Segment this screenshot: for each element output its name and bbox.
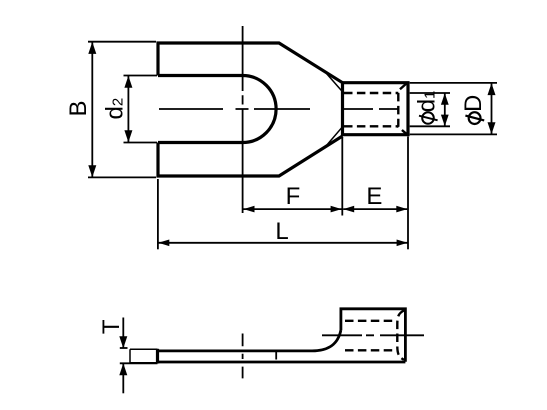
side view: vertical centerline [242, 334, 244, 379]
label phi-D: phi symbol slash [465, 116, 484, 121]
dimension phi-d1 extension line lower [410, 125, 450, 127]
dimension phi-D extension line bottom [410, 133, 497, 135]
dimension B extension line top [88, 41, 156, 43]
top view: vertical centerline [242, 26, 244, 213]
top view: barrel bore end hidden line [398, 84, 406, 134]
side view: horizontal centerline [322, 334, 424, 336]
dimension phi-d1 extension line upper [410, 92, 450, 94]
label phi-D: phi symbol circle [469, 112, 481, 124]
top view: fork terminal body outline upper [158, 43, 343, 83]
dimension phi-D arrow bottom [488, 122, 496, 134]
dimension E line [343, 208, 407, 210]
top view: fork slot (U-shaped) [158, 76, 276, 143]
top view: horizontal centerline [159, 108, 399, 110]
svg-text:L: L [275, 218, 288, 245]
dimension L/E extension line right [407, 137, 409, 250]
dimension B arrow top [88, 42, 96, 54]
dimension F arrow right [331, 206, 342, 213]
dimension L line [158, 242, 407, 244]
dimension T arrow top [119, 336, 127, 348]
dimension F arrow left [244, 206, 255, 213]
svg-text:F: F [286, 183, 301, 210]
dimension T arrow bottom [119, 363, 127, 375]
side view: tip section thin outline [130, 349, 158, 363]
dimension L arrow left [158, 240, 169, 247]
svg-text:B: B [65, 100, 92, 116]
side view: bore hidden line upper [345, 320, 396, 322]
dimension phi-D arrow top [488, 83, 496, 95]
dimension F line [244, 208, 342, 210]
side view: tip boundary line [156, 349, 159, 364]
top view: barrel bore hidden line upper [344, 92, 398, 94]
side view: plate top edge with bend [158, 330, 341, 351]
dimension d2 extension line bottom [124, 142, 158, 144]
dimension B line [91, 42, 93, 177]
dimension L extension line left [157, 179, 159, 249]
dimension E arrow right [396, 206, 407, 213]
dimension F/E shared extension line [341, 137, 343, 216]
dimension phi-d1 line [444, 93, 446, 126]
svg-text:D: D [460, 95, 487, 112]
svg-text:T: T [98, 319, 125, 334]
label phi-d1: phi symbol circle [422, 112, 434, 124]
dimension d2 extension line top [124, 75, 158, 77]
dimension T arrow line top [122, 318, 124, 348]
top view: fork terminal body outline lower [158, 136, 343, 176]
top view: barrel bore hidden line lower [344, 125, 398, 127]
dimension L arrow right [397, 240, 408, 247]
side view: barrel outline [341, 309, 406, 362]
side view: plate bottom edge [158, 361, 406, 364]
dimension T extension stub bottom [120, 362, 158, 364]
side view: bore hidden line lower [345, 349, 396, 351]
label phi-d1: phi symbol slash [419, 116, 438, 121]
dimension phi-d1 arrow top [441, 93, 449, 105]
dimension B arrow bottom [88, 165, 96, 177]
svg-text:E: E [366, 183, 382, 210]
dimension d2 arrow top [124, 76, 132, 88]
dimension T arrow line bottom [122, 364, 124, 393]
dimension T extension stub top [120, 347, 128, 349]
top view: barrel outline [343, 83, 409, 135]
dimension E arrow left [343, 206, 354, 213]
dimension d2 line [127, 76, 129, 143]
dimension phi-d1 arrow bottom [441, 115, 449, 127]
dimension B extension line bottom [88, 176, 156, 178]
dimension d2 arrow bottom [124, 130, 132, 142]
dimension phi-D extension line top [410, 82, 497, 84]
top view: crimp seam line lower [325, 127, 343, 148]
side view: bore end hidden curve [397, 310, 404, 359]
side view: slot end hidden dash [275, 352, 277, 360]
dimension phi-D line [491, 83, 493, 134]
top view: crimp seam line upper [325, 71, 343, 92]
